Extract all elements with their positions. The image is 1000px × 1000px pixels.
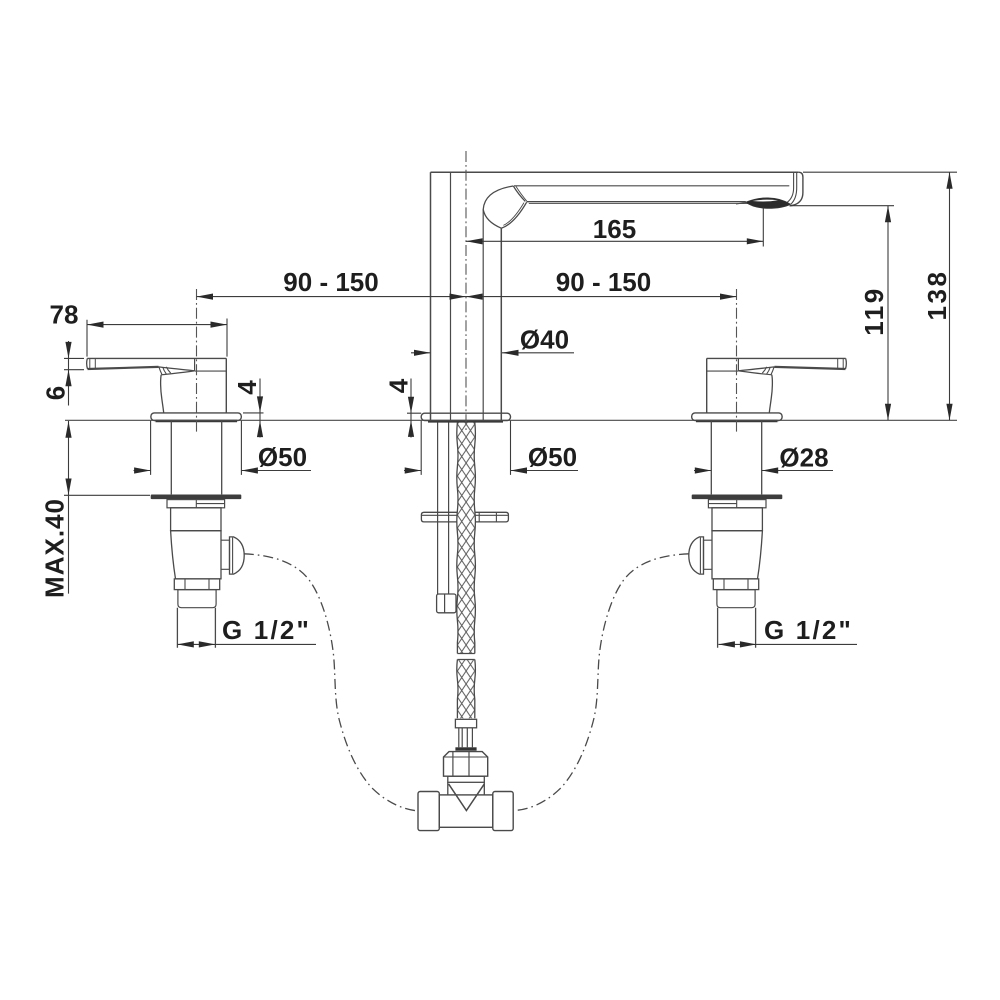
dim 78 [87, 319, 227, 357]
svg-text:G 1/2": G 1/2" [222, 615, 311, 645]
dim MAX.40 [64, 421, 150, 594]
tee neck [448, 782, 485, 795]
spout top edge [431, 171, 799, 173]
braided hose lower segment [457, 660, 474, 719]
spout horizontal seam line [514, 185, 789, 187]
dim diameter 50 left [134, 421, 312, 475]
tee barrel [439, 795, 493, 827]
elbow fillet arc lower-left [483, 210, 501, 229]
spout body right edge [500, 228, 502, 420]
svg-text:Ø40: Ø40 [520, 325, 569, 355]
mounting bracket left [421, 512, 457, 522]
svg-text:78: 78 [50, 300, 79, 330]
lever fan seams [159, 367, 162, 374]
dim 90-150 left [197, 296, 467, 298]
dim diameter 50 center [404, 421, 578, 475]
tee left cap [418, 792, 439, 831]
valve main body [171, 531, 221, 579]
svg-text:Ø50: Ø50 [258, 442, 307, 472]
tail shoulder [178, 590, 216, 608]
svg-text:90 - 150: 90 - 150 [556, 267, 651, 297]
side port knob [230, 537, 245, 574]
tee funnel [449, 784, 485, 811]
elbow fillet double line [503, 203, 524, 226]
lever blade top [87, 357, 226, 359]
connector washer [455, 747, 476, 750]
valve flange [151, 495, 242, 500]
spout body left edge [430, 172, 432, 420]
dim 90-150 right [466, 296, 737, 298]
elbow chamfer diagonal [513, 186, 525, 201]
svg-text:MAX.40: MAX.40 [40, 498, 70, 598]
tee right cap [493, 792, 513, 831]
dim 138 [803, 172, 957, 420]
spout end cap seam [787, 172, 794, 202]
handle body right edge [225, 358, 227, 413]
hose ferrule [455, 719, 476, 728]
pop-up rod [438, 423, 449, 595]
tee nut [444, 752, 488, 777]
dim 4 center [407, 379, 421, 438]
post top line [195, 370, 227, 372]
aerator outlet [746, 198, 791, 208]
flexible hose left [244, 554, 418, 811]
svg-text:138: 138 [922, 270, 952, 321]
center base plate [421, 413, 510, 420]
post left edge [161, 375, 164, 413]
dim diameter 28 [694, 470, 833, 472]
side port [221, 540, 230, 569]
svg-text:119: 119 [859, 286, 889, 335]
flexible hose right [515, 554, 689, 811]
centerline left handle [196, 289, 198, 434]
svg-text:90 - 150: 90 - 150 [283, 267, 378, 297]
svg-text:G 1/2": G 1/2" [764, 615, 853, 645]
braided hose upper segment [457, 423, 474, 654]
spout end cap [790, 172, 803, 206]
valve upper body [171, 508, 221, 531]
dim G 1/2 left [177, 643, 316, 645]
dim G 1/2 right [718, 643, 857, 645]
svg-text:6: 6 [40, 386, 70, 400]
handle base plate [151, 413, 241, 421]
dim 165 [466, 208, 763, 247]
dim diameter 40 [411, 352, 574, 354]
svg-text:Ø28: Ø28 [779, 443, 828, 473]
spout inner right seam [482, 210, 484, 421]
lever scoop [159, 367, 195, 371]
pop-up rod end block [437, 594, 456, 613]
lever blade bottom [88, 367, 159, 369]
counter reference line [65, 419, 957, 421]
lever blade tip [86, 358, 89, 369]
svg-text:Ø50: Ø50 [528, 442, 577, 472]
svg-text:4: 4 [232, 380, 262, 395]
lever front edge [194, 358, 196, 370]
tee collar [448, 776, 485, 782]
mounting bracket right [475, 512, 508, 522]
elbow fillet arc lower-right [501, 202, 526, 228]
dim 119 [790, 206, 894, 421]
threaded tail [177, 608, 215, 648]
dim 4 left [243, 379, 264, 438]
centerline spout [465, 151, 467, 433]
spout inner left seam [450, 173, 452, 420]
centerline right handle [736, 289, 738, 434]
valve shank [171, 421, 221, 495]
svg-text:165: 165 [593, 214, 636, 244]
valve collar [167, 500, 225, 508]
locking nut [174, 579, 219, 590]
elbow fillet arc upper [483, 186, 513, 210]
center base plate shadow [428, 420, 503, 423]
dim 6 [64, 341, 84, 406]
connector tubes [459, 728, 473, 748]
spout underside double line [527, 201, 746, 203]
svg-text:4: 4 [384, 378, 414, 393]
